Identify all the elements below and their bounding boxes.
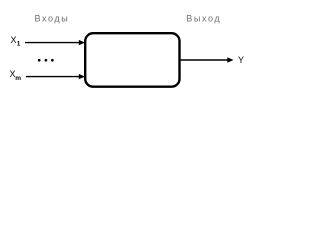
input label X1 (11, 35, 21, 47)
output label Y (238, 55, 244, 65)
wire Y arrow (181, 57, 234, 62)
svg-text:Y: Y (238, 55, 244, 65)
svg-text:Входы: Входы (35, 14, 70, 24)
ellipsis dots (38, 59, 54, 62)
block U1 rounded box (85, 33, 179, 86)
label "Входы" (35, 14, 70, 24)
wire Xm arrow (26, 74, 85, 79)
svg-text:X: X (11, 35, 17, 45)
input label Xm (10, 69, 22, 82)
svg-text:Выход: Выход (186, 14, 221, 24)
svg-text:m: m (15, 75, 21, 82)
label "Выход" (186, 14, 221, 24)
svg-text:1: 1 (17, 41, 21, 48)
wire X1 arrow (25, 40, 85, 45)
